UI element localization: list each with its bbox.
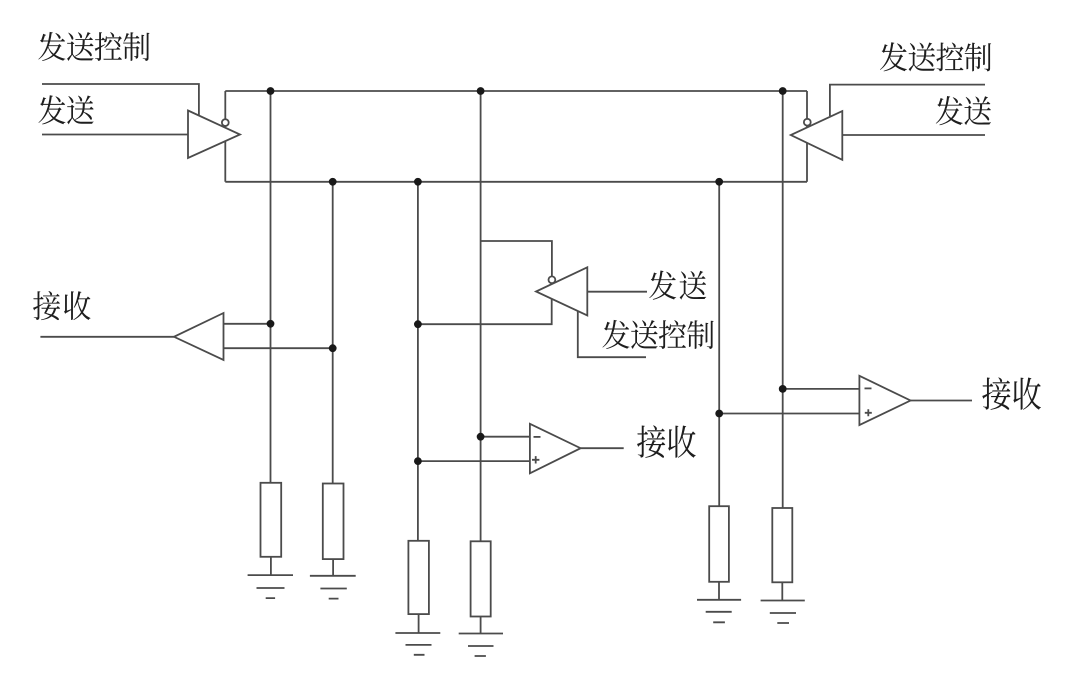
wire: net B vertical to R3/U5 — [417, 182, 419, 541]
ground G4 — [459, 634, 503, 657]
receiver U4 triangle — [174, 313, 224, 360]
wire: R3 to ground — [418, 614, 420, 633]
label: TX (top left) — [38, 95, 65, 124]
wire: U3 TX-control input — [578, 311, 646, 357]
wire: R1 to ground — [270, 557, 272, 575]
comparator U5 triangle — [530, 424, 581, 474]
junction: U4 input A — [267, 320, 275, 328]
comparator U6 triangle — [859, 376, 910, 425]
wire: net B vertical to R5/U6 — [718, 182, 720, 506]
resistor R1 — [261, 483, 282, 557]
driver U3 inverting bubble — [549, 276, 556, 283]
wire: U3 TX-data input — [587, 291, 647, 293]
label: TX-control (top right) — [880, 42, 907, 71]
wire: bus line A (top) — [225, 90, 807, 92]
driver U2 inverting bubble — [804, 119, 811, 126]
wire: R6 to ground — [781, 582, 783, 600]
wire: R4 to ground — [480, 617, 482, 634]
U6 minus-input mark — [865, 387, 872, 389]
wire: U3 output to net B — [418, 298, 552, 324]
junction: net A / x=480 — [477, 87, 485, 95]
label: RX (right) — [982, 377, 1010, 410]
wire: bus line B (bottom) — [225, 181, 807, 183]
U6 plus-input mark — [865, 409, 872, 416]
driver U2 triangle — [791, 111, 843, 160]
wire: U6 non-inverting input from net B — [719, 413, 859, 415]
U5 plus-input mark — [532, 456, 539, 463]
wire: net B vertical to R2/U4 — [332, 182, 334, 484]
resistor R3 — [408, 541, 429, 614]
wire: right TX-data net — [842, 134, 985, 136]
wire: R5 to ground — [718, 582, 720, 600]
wire: right TX-control net — [830, 85, 985, 116]
label: RX (middle) — [637, 425, 665, 458]
resistor R4 — [471, 541, 491, 616]
junction: U4 input B — [329, 344, 337, 352]
driver U1 triangle — [188, 111, 240, 159]
U5 minus-input mark — [534, 436, 541, 438]
label: TX-control (middle) — [602, 320, 629, 349]
ground G5 — [697, 600, 741, 623]
ground G3 — [395, 633, 440, 655]
junction: U3 output B — [414, 320, 422, 328]
junction: U6 input B — [715, 410, 723, 418]
wire: U6 inverting input from net A — [783, 388, 860, 390]
junction: U6 input A — [779, 385, 787, 393]
junction: net B / x=719 — [715, 178, 723, 186]
junction: net B / x=332 — [329, 178, 337, 186]
junction: net B / x=417 — [414, 178, 422, 186]
ground G6 — [761, 601, 805, 624]
driver U1 inverting bubble — [222, 119, 229, 126]
junction: U5 input B — [414, 457, 422, 465]
label: TX-control (top left) — [38, 32, 65, 61]
wire: bus drop left (x=225) — [224, 91, 226, 182]
wire: net A vertical to R6/U6 — [782, 91, 784, 508]
wire: U5 non-inverting input from net B — [418, 460, 530, 462]
resistor R2 — [323, 484, 344, 560]
wire: U3 inverting output to net A — [481, 241, 552, 295]
label: TX (middle) — [649, 271, 676, 300]
wire: net A vertical to R1/U4 — [270, 91, 272, 483]
wire: U4 input from net B — [224, 347, 333, 349]
wire: net A vertical to R4/U5 — [480, 91, 482, 541]
wire: bus drop right (x=806) — [806, 91, 808, 182]
junction: U5 input A — [477, 433, 485, 441]
wire: U5 inverting input from net A — [481, 436, 530, 438]
junction: net A / x=270 — [267, 87, 275, 95]
ground G1 — [248, 575, 293, 598]
resistor R5 — [709, 506, 729, 582]
resistor R6 — [772, 508, 792, 582]
wire: U4 input from net A — [224, 323, 271, 325]
label: RX (left) — [33, 291, 60, 320]
driver U3 triangle — [536, 267, 587, 315]
junction: net A / x=782 — [779, 87, 787, 95]
wire: left TX-data net — [42, 134, 188, 136]
label: TX (top right) — [936, 96, 963, 125]
wire: U4 RX output — [40, 336, 174, 338]
wire: R2 to ground — [332, 559, 334, 576]
wire: U5 RX output — [581, 447, 624, 449]
wire: left TX-control net — [42, 84, 199, 116]
ground G2 — [310, 576, 356, 599]
wire: U6 RX output — [911, 400, 973, 402]
